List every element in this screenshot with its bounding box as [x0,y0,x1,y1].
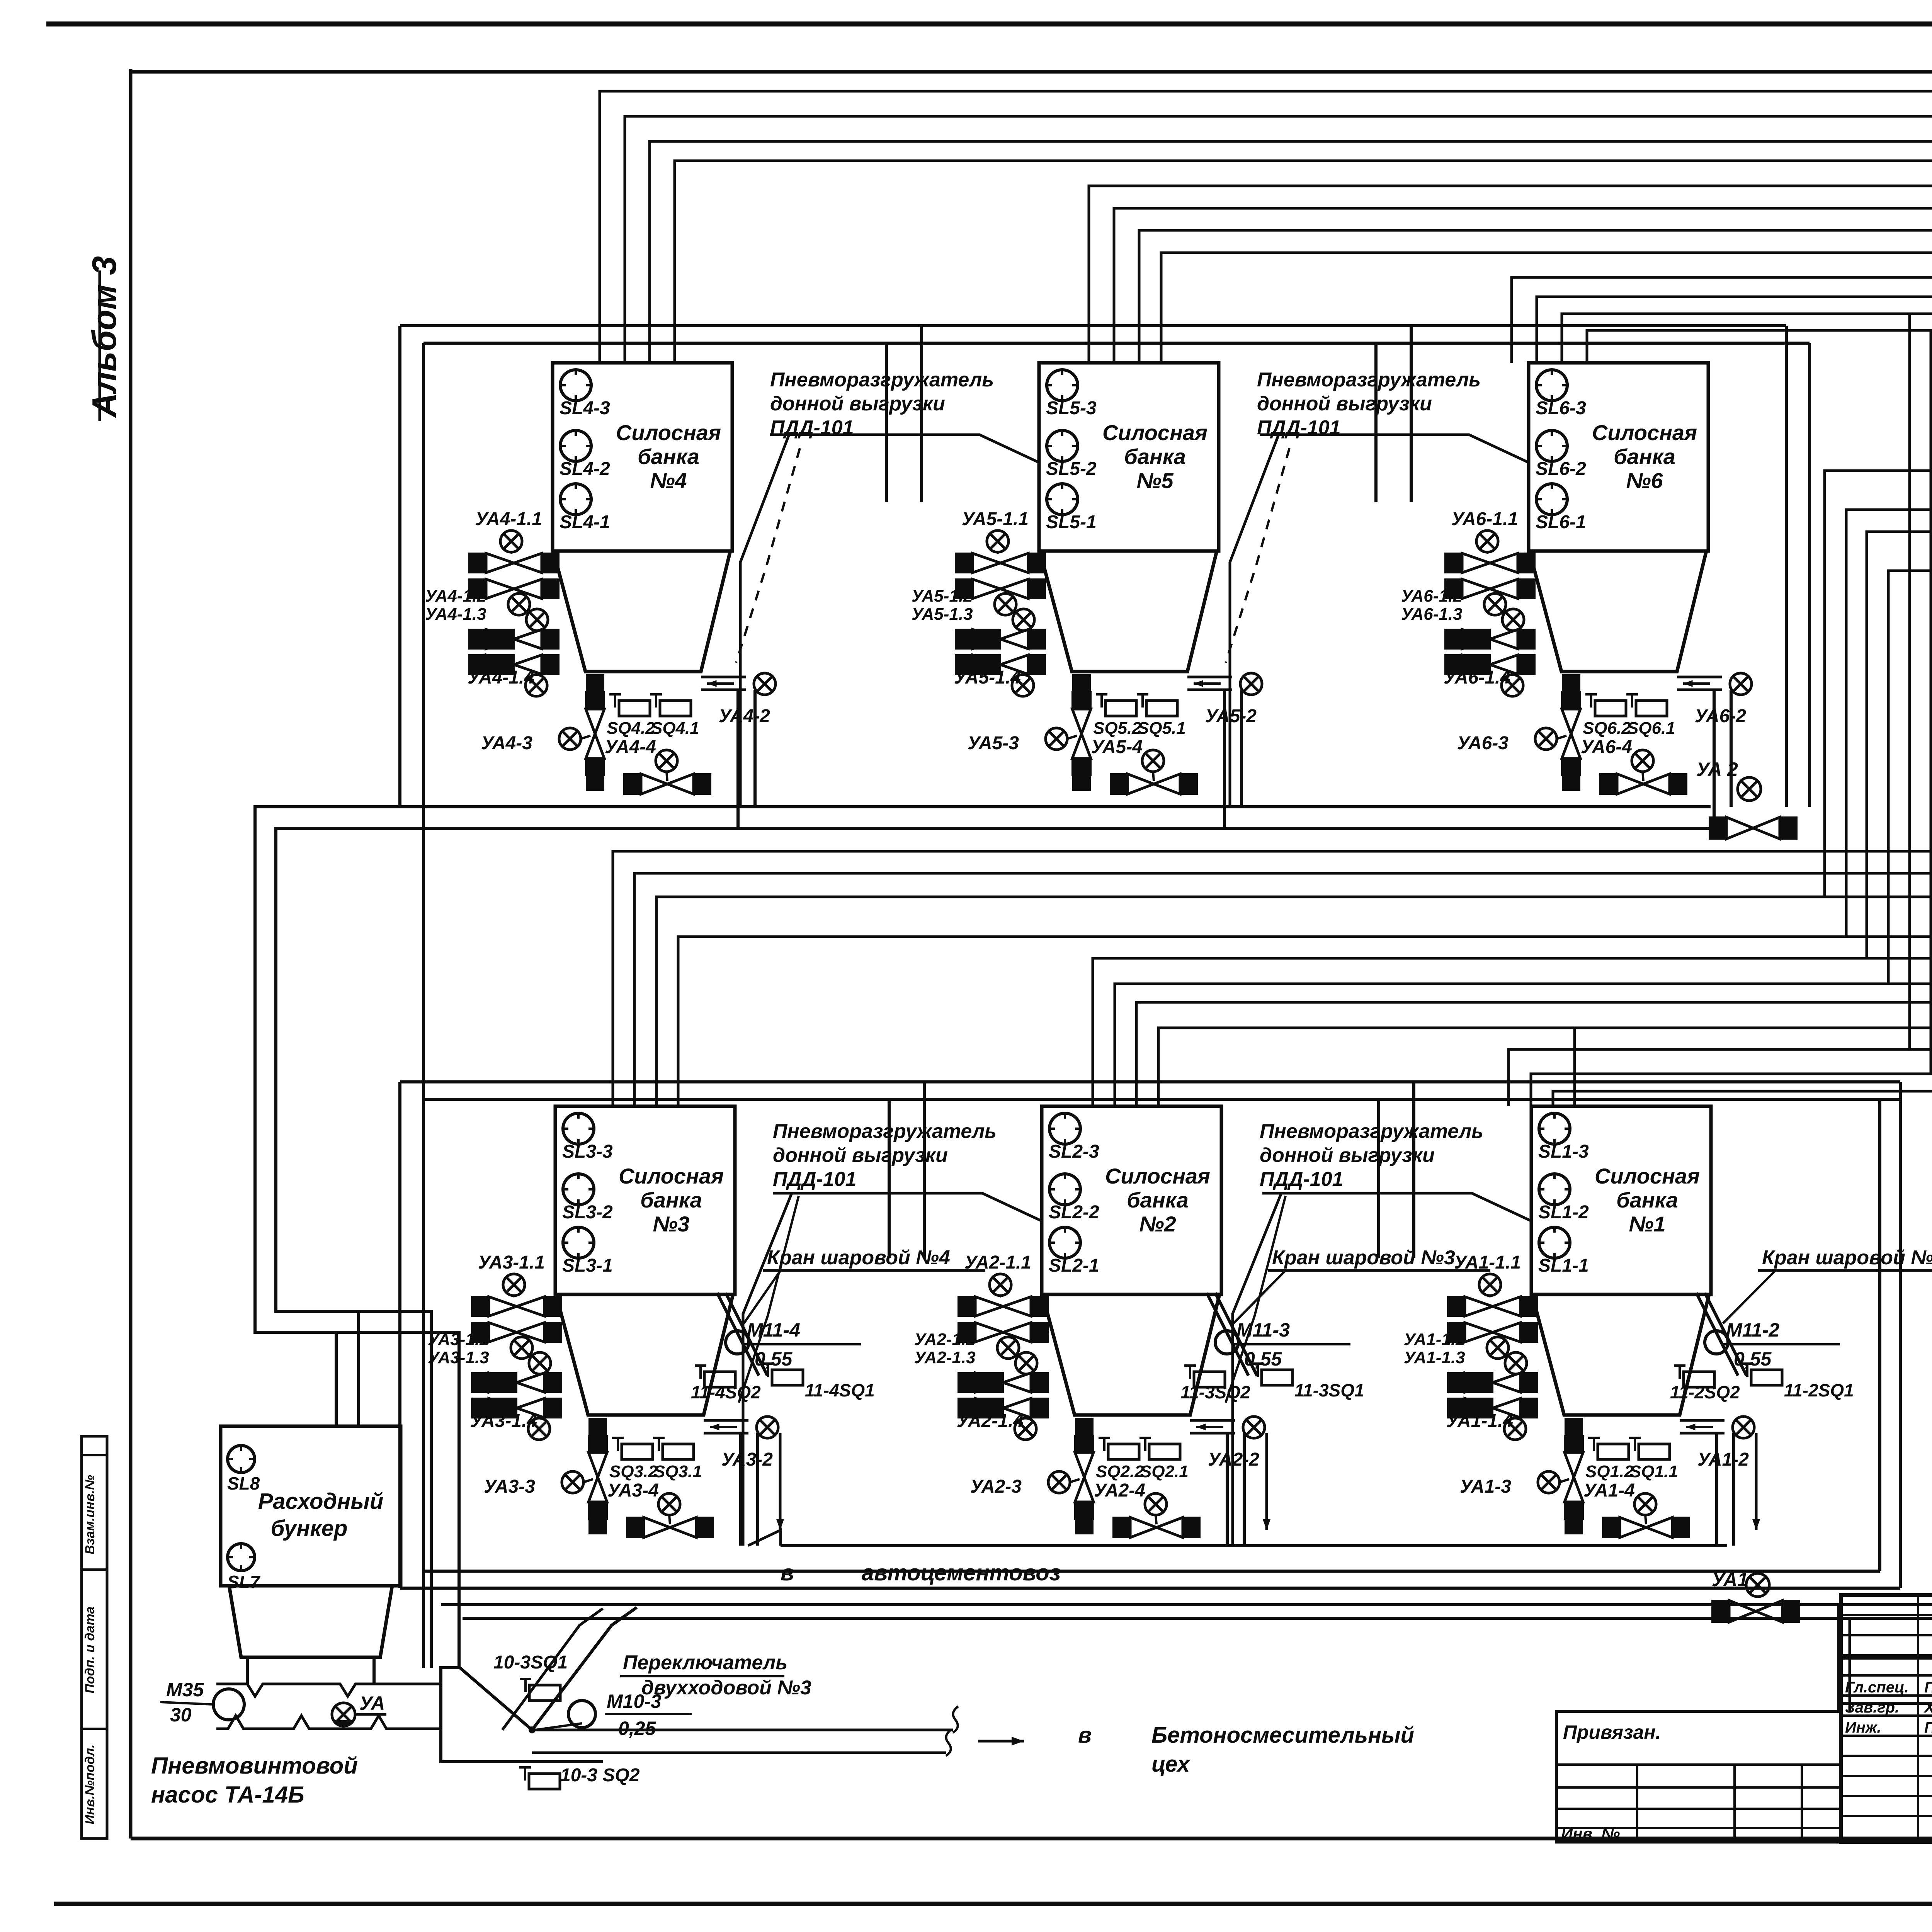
limit switch 11-2SQ2 [1679,1366,1681,1379]
silo outlet pipe [704,1419,748,1422]
svg-text:донной выгрузки: донной выгрузки [773,1144,948,1167]
svg-text:УА4-3: УА4-3 [481,733,532,753]
bottom harness wires [441,1603,1932,1606]
svg-text:двухходовой №3: двухходовой №3 [641,1677,811,1699]
bottom row building right wall [1899,1082,1902,1588]
pump motor M35 [213,1689,244,1720]
title block [1841,1595,1932,1842]
valve UA3-2 actuator [757,1417,778,1438]
level sensor SL4-2 [560,430,591,461]
svg-text:SL3-3: SL3-3 [562,1141,613,1162]
svg-text:SL1-1: SL1-1 [1538,1255,1589,1276]
svg-text:SQ2.2: SQ2.2 [1096,1462,1144,1481]
svg-text:М35: М35 [166,1679,204,1701]
level sensor SL2-3 [1049,1113,1080,1144]
svg-text:банка: банка [640,1188,702,1212]
unloader PDD-101 outline (between silos 2,1) [1233,1193,1281,1546]
svg-text:SL7: SL7 [227,1572,261,1592]
svg-text:УА1-4: УА1-4 [1583,1480,1635,1501]
svg-text:УА5-1.2: УА5-1.2 [912,587,973,605]
valve UA1-4 [1602,1517,1620,1538]
wall between silos 5 and 6 [1410,326,1413,502]
discharge gate valve (vertical) [588,1435,608,1452]
limit switch 10-3SQ2 [524,1767,526,1781]
limit switch 11-4SQ1 [767,1364,769,1377]
svg-text:11-3SQ2: 11-3SQ2 [1180,1382,1250,1402]
svg-text:SL2-1: SL2-1 [1049,1255,1099,1276]
silo side valve bank UA5-1.1..1.4 [955,553,973,573]
svg-text:Альбом 3: Альбом 3 [85,256,123,418]
silo funnel [553,551,730,672]
svg-text:SL4-2: SL4-2 [560,459,610,479]
svg-text:УА2-1.3: УА2-1.3 [914,1348,976,1367]
svg-text:№4: №4 [650,468,687,493]
discharge pipe from silo 3 outlet [739,1433,742,1546]
limit switch SQ4.2 [614,694,616,707]
discharge gate valve (vertical) [1074,1435,1094,1452]
wall between silos 3 and 2 [923,1082,926,1258]
svg-text:SL6-3: SL6-3 [1536,398,1586,418]
valve UA4-3 actuator [559,728,581,750]
ball valve drive M11-3 [1215,1331,1238,1354]
valve UA on pump [332,1703,355,1726]
top row building left walls / drop to pump area [398,326,401,807]
svg-text:УА5-1.3: УА5-1.3 [912,605,973,624]
hopper outlet connectors [246,1657,249,1684]
pneumo-unloader leader (dashed) [736,448,800,663]
level sensor SL2-2 [1049,1174,1080,1205]
svg-text:Подп. и дата: Подп. и дата [83,1606,97,1693]
silo tank No.2 (Силосная банка №2) [1042,1106,1221,1294]
middle harness wires from silo 3 [613,851,1932,1106]
svg-text:SQ2.1: SQ2.1 [1140,1462,1189,1481]
discharge pipe from silo 5 outlet [1223,690,1226,828]
cement pipe from silo rooms down-left [255,807,1711,1668]
svg-text:Потехин: Потехин [1924,1679,1932,1696]
silo outlet pipe [1680,1419,1725,1422]
svg-text:№3: №3 [653,1212,689,1236]
svg-text:УА 2: УА 2 [1696,759,1738,780]
svg-text:УА2-1.4: УА2-1.4 [957,1411,1024,1431]
svg-text:11-4SQ1: 11-4SQ1 [805,1380,875,1400]
svg-text:Силосная: Силосная [619,1164,724,1188]
drawing frame [131,70,1932,74]
svg-text:SQ5.2: SQ5.2 [1093,719,1141,738]
svg-text:Зав.гр.: Зав.гр. [1845,1699,1899,1716]
svg-text:SL6-1: SL6-1 [1536,512,1586,532]
discharge pipe from silo 6 outlet [1713,690,1716,828]
svg-text:Инв. №: Инв. № [1561,1825,1620,1843]
valve UA5-2 actuator [1240,673,1262,695]
unloader PDD-101 outline (between silos 3,2) [743,1193,792,1546]
svg-text:0,25: 0,25 [618,1718,656,1739]
page top border line [46,22,1932,27]
svg-text:№1: №1 [1629,1212,1665,1236]
svg-text:Кран шаровой №2: Кран шаровой №2 [1762,1247,1932,1269]
silo outlet pipe [701,676,746,679]
level sensor SL6-3 [1536,370,1567,401]
limit switch SQ2.1 [1144,1438,1146,1451]
silo side valve bank UA3-1.1..1.4 [471,1296,489,1317]
svg-text:Инв.№подл.: Инв.№подл. [83,1744,97,1824]
silo outlet pipe [1677,676,1722,679]
svg-text:в: в [781,1560,794,1585]
svg-text:SL5-1: SL5-1 [1046,512,1097,532]
svg-text:SQ1.1: SQ1.1 [1630,1462,1678,1481]
svg-text:Привязан.: Привязан. [1563,1721,1661,1743]
limit switch SQ2.2 [1103,1438,1105,1451]
pneumo-unloader leader (dashed) [1226,448,1289,663]
svg-text:УА4-1.2: УА4-1.2 [425,587,486,605]
pneumo-unloader leader [1226,1196,1286,1403]
wire from UA1 to title block area [1800,1605,1838,1711]
top row building right wall [1785,326,1788,807]
silo tank No.4 (Силосная банка №4) [553,363,732,551]
silo tank No.5 (Силосная банка №5) [1039,363,1219,551]
wires to concrete mixing shop [532,1729,953,1731]
valve UA2 [1738,777,1761,801]
valve UA6-2 actuator [1730,673,1752,695]
limit switch SQ6.1 [1631,694,1633,707]
limit switch SQ4.1 [655,694,657,707]
motor M10-3 [568,1701,595,1728]
svg-text:SL8: SL8 [227,1473,260,1493]
svg-text:SQ6.2: SQ6.2 [1583,719,1631,738]
svg-text:Кран шаровой №3: Кран шаровой №3 [1272,1247,1455,1269]
svg-text:SL5-3: SL5-3 [1046,398,1097,418]
silo funnel [1532,1294,1709,1415]
silo tank No.6 (Силосная банка №6) [1529,363,1708,551]
wire bundle down to switch unit No.1 [1908,314,1911,1049]
svg-text:10-3SQ1: 10-3SQ1 [493,1652,568,1673]
svg-text:УА1-2: УА1-2 [1697,1449,1749,1470]
valve UA6-4 [1599,773,1617,795]
svg-text:SQ1.2: SQ1.2 [1585,1462,1634,1481]
valve UA3-3 actuator [562,1471,583,1493]
level sensor SL1-3 [1539,1113,1570,1144]
svg-text:УА2-1.2: УА2-1.2 [914,1330,976,1349]
top row building roof lines [400,324,1786,327]
svg-text:SQ6.1: SQ6.1 [1627,719,1675,738]
auto-cement-truck pipe [748,1530,781,1546]
svg-text:Силосная: Силосная [1595,1164,1700,1188]
outer bottom border [54,1902,1932,1906]
svg-text:Силосная: Силосная [1592,420,1697,445]
wires from room 6 up to 5-2SQ1/SQ2 boxes [1825,471,1932,897]
svg-text:SL1-3: SL1-3 [1538,1141,1589,1162]
svg-text:УА1-1.2: УА1-1.2 [1404,1330,1465,1349]
svg-text:УА6-3: УА6-3 [1457,733,1509,753]
level sensor SL6-2 [1536,430,1567,461]
svg-text:УА5-1.1: УА5-1.1 [962,509,1029,529]
level sensor SL6-1 [1536,484,1567,515]
svg-text:УА1-3: УА1-3 [1460,1476,1511,1497]
ball valve drive M11-4 [726,1331,749,1354]
svg-text:УА4-1.1: УА4-1.1 [475,509,542,529]
consumption hopper (Расходный бункер) [221,1426,401,1586]
svg-text:УА3-1.1: УА3-1.1 [478,1252,545,1273]
svg-text:SL4-3: SL4-3 [560,398,610,418]
valve UA6-3 actuator [1535,728,1557,750]
two-way switch No.3 [441,1668,603,1762]
svg-text:УА4-4: УА4-4 [605,737,656,757]
branch pipe into consumption hopper [335,1332,338,1428]
limit switch SQ1.1 [1634,1438,1636,1451]
svg-text:банка: банка [1124,444,1186,469]
svg-text:УА4-1.4: УА4-1.4 [468,667,534,688]
svg-text:SQ4.1: SQ4.1 [651,719,699,738]
svg-text:УА6-1.4: УА6-1.4 [1444,667,1510,688]
svg-text:УА1-1.3: УА1-1.3 [1404,1348,1465,1367]
svg-text:11-3SQ1: 11-3SQ1 [1294,1380,1364,1400]
svg-text:SQ3.2: SQ3.2 [609,1462,658,1481]
top harness wires from silo 6 [1512,277,1932,451]
svg-text:УА5-4: УА5-4 [1091,737,1143,757]
discharge pipe from silo 2 outlet [1226,1433,1229,1546]
limit switch 11-4SQ2 [699,1366,702,1379]
bottom row room left wall [398,1082,401,1588]
discharge pipe from silo 1 outlet [1715,1433,1718,1546]
limit switch 11-2SQ1 [1746,1364,1748,1377]
valve UA2-2 actuator [1243,1417,1265,1438]
svg-text:ПДД-101: ПДД-101 [770,417,854,439]
svg-text:Пневморазгружатель: Пневморазгружатель [1257,369,1481,391]
svg-text:Гл.спец.: Гл.спец. [1845,1679,1909,1696]
level sensor SL7 [228,1544,255,1571]
silo funnel [1040,551,1217,672]
svg-text:УА4-2: УА4-2 [719,706,770,726]
valve UA3-4 [626,1517,644,1538]
svg-text:УА5-3: УА5-3 [968,733,1019,753]
level sensor SL3-1 [563,1227,594,1258]
svg-text:УА6-4: УА6-4 [1581,737,1632,757]
svg-text:Силосная: Силосная [616,420,721,445]
limit switch 10-3SQ1 [524,1679,527,1692]
bottom row building roof lines [400,1080,1900,1083]
svg-text:SL3-2: SL3-2 [562,1202,613,1223]
svg-text:SL3-1: SL3-1 [562,1255,613,1276]
silo outlet pipe [1187,676,1232,679]
svg-text:SL1-2: SL1-2 [1538,1202,1589,1223]
svg-text:УА2-4: УА2-4 [1094,1480,1145,1501]
svg-text:11-4SQ2: 11-4SQ2 [691,1382,761,1402]
svg-text:УА: УА [359,1692,385,1714]
svg-text:УА5-1.4: УА5-1.4 [954,667,1021,688]
valve UA4-4 [623,773,641,795]
level sensor SL5-3 [1047,370,1078,401]
silo tank No.1 (Силосная банка №1) [1531,1106,1711,1294]
level sensor SL8 [228,1446,255,1473]
svg-text:11-2SQ2: 11-2SQ2 [1670,1382,1740,1402]
valve UA2-3 actuator [1048,1471,1070,1493]
top harness wires from silo 4 [600,91,1932,363]
limit switch 11-3SQ2 [1189,1366,1191,1379]
svg-text:М11-4: М11-4 [747,1319,800,1341]
level sensor SL3-3 [563,1113,594,1144]
level sensor SL1-1 [1539,1227,1570,1258]
svg-text:10-3 SQ2: 10-3 SQ2 [560,1765,640,1786]
svg-text:№5: №5 [1136,468,1173,493]
level sensor SL3-2 [563,1174,594,1205]
unloader PDD-101 outline (between silos 5,6) [1230,435,1279,807]
svg-text:SL5-2: SL5-2 [1046,459,1097,479]
svg-text:Расходный: Расходный [258,1489,384,1514]
silo funnel [1529,551,1706,672]
svg-text:Инж.: Инж. [1845,1719,1881,1736]
svg-text:цех: цех [1151,1752,1191,1777]
svg-text:ПДД-101: ПДД-101 [773,1168,857,1190]
limit switch SQ5.1 [1141,694,1144,707]
svg-text:М11-2: М11-2 [1726,1319,1779,1341]
wall between silos 2 and 1 [1412,1082,1415,1258]
svg-text:SL2-3: SL2-3 [1049,1141,1099,1162]
left margin column [82,1436,107,1838]
limit switch SQ1.2 [1593,1438,1595,1451]
svg-text:УА6-2: УА6-2 [1695,706,1746,726]
level sensor SL2-1 [1049,1227,1080,1258]
silo side valve bank UA4-1.1..1.4 [468,553,486,573]
svg-text:SQ3.1: SQ3.1 [654,1462,702,1481]
svg-text:УА6-1.2: УА6-1.2 [1401,587,1463,605]
silo funnel [1043,1294,1219,1415]
svg-text:Перчаткина: Перчаткина [1924,1719,1932,1736]
svg-text:SL2-2: SL2-2 [1049,1202,1099,1223]
svg-text:банка: банка [1616,1188,1678,1212]
silo tank No.3 (Силосная банка №3) [555,1106,735,1294]
svg-text:в: в [1078,1723,1092,1748]
limit switch SQ5.2 [1100,694,1103,707]
svg-text:УА6-1.1: УА6-1.1 [1451,509,1518,529]
silo outlet pipe [1190,1419,1235,1422]
silo funnel [556,1294,733,1415]
top harness wires from silo 5 [1089,186,1932,363]
unloader PDD-101 outline (between silos 4,5) [740,435,789,807]
silo side valve bank UA6-1.1..1.4 [1444,553,1462,573]
valve UA1-2 actuator [1733,1417,1754,1438]
svg-text:30: 30 [170,1704,192,1726]
svg-text:банка: банка [1614,444,1675,469]
valve UA2-4 [1112,1517,1130,1538]
limit switch SQ6.2 [1590,694,1592,707]
pneumo-unloader leader [739,1196,799,1403]
svg-text:SQ4.2: SQ4.2 [607,719,655,738]
svg-text:ПДД-101: ПДД-101 [1260,1168,1344,1190]
svg-text:насос ТА-14Б: насос ТА-14Б [151,1782,304,1808]
svg-text:SL4-1: SL4-1 [560,512,610,532]
discharge gate valve (vertical) [1561,691,1581,709]
svg-text:УА1-1.4: УА1-1.4 [1446,1411,1513,1431]
svg-text:Переключатель: Переключатель [623,1651,787,1674]
valve UA5-3 actuator [1046,728,1067,750]
level sensor SL4-1 [560,484,591,515]
valve UA1 [1746,1573,1769,1597]
bottom row building floor lines [400,1587,1900,1590]
level sensor SL4-3 [560,370,591,401]
svg-text:Пневморазгружатель: Пневморазгружатель [770,369,994,391]
discharge gate valve (vertical) [585,691,605,709]
svg-text:Бетоносмесительный: Бетоносмесительный [1151,1723,1414,1748]
discharge pipe from silo 4 outlet [736,690,740,828]
svg-text:УА2-3: УА2-3 [970,1476,1022,1497]
svg-text:Хрипушкина: Хрипушкина [1923,1699,1932,1716]
svg-text:Силосная: Силосная [1102,420,1207,445]
limit switch SQ3.1 [658,1438,660,1451]
valve UA4-2 actuator [754,673,776,695]
svg-text:№2: №2 [1139,1212,1176,1236]
svg-text:автоцементовоз: автоцементовоз [862,1560,1061,1585]
svg-text:УА6-1.3: УА6-1.3 [1401,605,1463,624]
discharge gate valve (vertical) [1564,1435,1584,1452]
svg-text:банка: банка [638,444,699,469]
svg-text:донной выгрузки: донной выгрузки [1260,1144,1435,1167]
svg-text:Пневморазгружатель: Пневморазгружатель [1260,1120,1483,1143]
svg-text:УА3-2: УА3-2 [721,1449,773,1470]
svg-text:11-2SQ1: 11-2SQ1 [1784,1380,1854,1400]
svg-text:№6: №6 [1626,468,1663,493]
wall between silos 4 and 5 [920,326,923,502]
attachment table left of title block [1556,1711,1841,1842]
svg-text:М11-3: М11-3 [1236,1319,1290,1341]
svg-text:Пневмовинтовой: Пневмовинтовой [151,1753,358,1779]
svg-text:Взам.инв.№: Взам.инв.№ [83,1475,97,1554]
svg-text:SL6-2: SL6-2 [1536,459,1586,479]
svg-text:донной выгрузки: донной выгрузки [770,393,945,415]
valve UA5-4 [1110,773,1128,795]
silo side valve bank UA1-1.1..1.4 [1447,1296,1465,1317]
limit switch 11-3SQ1 [1257,1364,1259,1377]
svg-text:бункер: бункер [271,1516,348,1541]
middle harness wires from silo 2 [1093,958,1932,1106]
middle harness wires from silo 1 [1509,1049,1932,1605]
svg-text:SQ5.1: SQ5.1 [1138,719,1186,738]
svg-text:УА3-3: УА3-3 [484,1476,535,1497]
svg-text:банка: банка [1127,1188,1189,1212]
svg-text:донной выгрузки: донной выгрузки [1257,393,1432,415]
level sensor SL1-2 [1539,1174,1570,1205]
silo side valve bank UA2-1.1..1.4 [957,1296,975,1317]
screw pump body [216,1684,439,1696]
svg-text:УА4-1.3: УА4-1.3 [425,605,486,624]
svg-text:УА3-1.4: УА3-1.4 [470,1411,537,1431]
svg-text:УА1: УА1 [1712,1569,1748,1590]
svg-text:Пневморазгружатель: Пневморазгружатель [773,1120,997,1143]
svg-text:Силосная: Силосная [1105,1164,1210,1188]
svg-text:Кран шаровой №4: Кран шаровой №4 [767,1247,950,1269]
ball valve drive M11-2 [1705,1331,1728,1354]
level sensor SL5-1 [1047,484,1078,515]
svg-text:ПДД-101: ПДД-101 [1257,417,1341,439]
level sensor SL5-2 [1047,430,1078,461]
valve UA1-3 actuator [1538,1471,1560,1493]
limit switch SQ3.2 [617,1438,619,1451]
discharge gate valve (vertical) [1071,691,1092,709]
svg-text:УА3-4: УА3-4 [607,1480,659,1501]
